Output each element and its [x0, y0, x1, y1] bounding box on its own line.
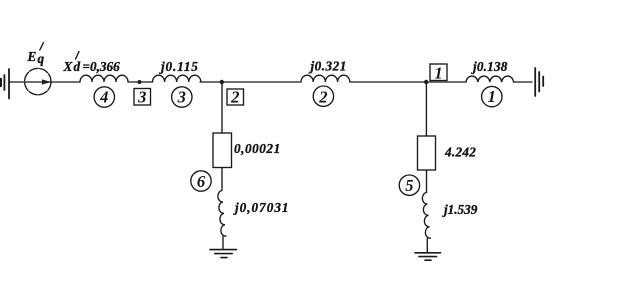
svg-text:4.242: 4.242 — [444, 145, 476, 160]
svg-text:5: 5 — [405, 176, 413, 195]
svg-text:3: 3 — [137, 88, 146, 107]
svg-text:j1.539: j1.539 — [442, 202, 478, 217]
svg-text:j0.321: j0.321 — [309, 59, 347, 74]
svg-text:1: 1 — [488, 87, 496, 106]
svg-text:0,00021: 0,00021 — [234, 141, 281, 156]
svg-text:1: 1 — [434, 64, 442, 83]
svg-text:j0.138: j0.138 — [471, 59, 508, 74]
svg-text:6: 6 — [197, 172, 206, 191]
svg-text:3: 3 — [177, 88, 186, 107]
svg-text:d: d — [74, 59, 81, 74]
svg-text:E: E — [27, 49, 37, 64]
svg-text:2: 2 — [318, 87, 327, 106]
svg-text:j0,07031: j0,07031 — [233, 200, 290, 215]
svg-text:=0,366: =0,366 — [83, 59, 121, 74]
svg-text:j0.115: j0.115 — [159, 59, 199, 74]
svg-text:X: X — [63, 59, 74, 74]
svg-text:q: q — [38, 51, 45, 66]
svg-text:4: 4 — [99, 87, 108, 106]
svg-text:2: 2 — [230, 88, 239, 107]
